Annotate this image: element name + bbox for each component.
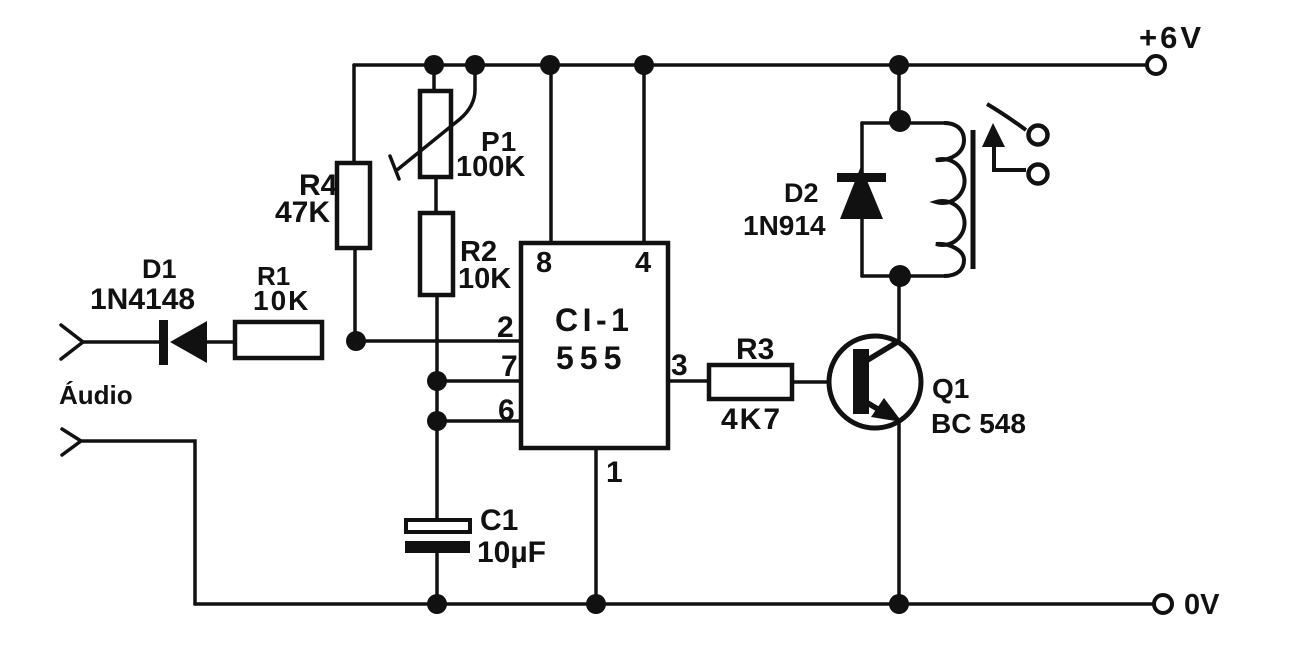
wire pin 3 to R3 — [668, 379, 709, 383]
potentiometer P1 wiper arm — [397, 66, 475, 170]
svg-text:1N4148: 1N4148 — [90, 283, 195, 316]
wire D2 branch lower — [860, 219, 864, 276]
svg-text:3: 3 — [671, 349, 688, 382]
svg-text:Áudio: Áudio — [59, 380, 133, 410]
wire R2 bottom vertical to C1 — [435, 295, 439, 520]
node bottom rail pin1 — [586, 594, 606, 614]
input arrow lower — [62, 429, 81, 455]
relay core bar — [971, 130, 976, 269]
wire Q1 emitter to rail — [897, 421, 901, 604]
wire pin 7 — [437, 379, 521, 383]
resistor R2 — [420, 213, 453, 295]
relay actuation arrow — [982, 123, 1026, 170]
terminal +6V — [1147, 56, 1165, 74]
wire input upper to D1 — [83, 340, 160, 344]
wire top +6V rail — [354, 63, 1146, 67]
wire relay to Q1 collector — [897, 276, 901, 343]
relay switch arm — [987, 104, 1026, 130]
node bottom rail Q1 — [889, 594, 909, 614]
svg-text:+6V: +6V — [1139, 20, 1204, 55]
svg-text:D2: D2 — [784, 178, 819, 208]
wire R4 branch top vertical — [352, 65, 356, 163]
relay contact lower — [1029, 165, 1048, 184]
diode D2 — [837, 166, 886, 219]
svg-text:BC 548: BC 548 — [931, 408, 1026, 439]
node relay top — [889, 110, 911, 132]
wire C1 bottom to rail — [435, 553, 439, 604]
input arrow upper — [61, 325, 83, 359]
IC U1 CI-1 555 box — [521, 243, 668, 448]
wire relay bottom horizontal — [862, 274, 948, 278]
resistor R1 — [235, 322, 322, 358]
svg-text:R3: R3 — [736, 333, 774, 366]
resistor R3 — [709, 365, 792, 399]
svg-text:10K: 10K — [458, 263, 511, 295]
diode D1 — [159, 320, 207, 365]
wire R4 bottom to node — [353, 248, 357, 341]
wire pin 2 node to IC — [356, 339, 521, 343]
svg-text:0V: 0V — [1184, 589, 1220, 621]
node top rail relay — [889, 55, 909, 75]
wire D2 branch upper — [860, 123, 864, 174]
svg-text:4K7: 4K7 — [721, 403, 782, 436]
wire pin 1 — [594, 448, 598, 604]
wire P1 top — [432, 65, 436, 91]
node top rail P1 — [424, 55, 444, 75]
wire pin 6 — [437, 419, 521, 423]
svg-text:D1: D1 — [142, 254, 177, 284]
potentiometer P1 wiper tail tick — [390, 156, 399, 179]
transistor Q1 — [829, 336, 921, 428]
svg-text:1N914: 1N914 — [743, 210, 826, 241]
svg-text:10K: 10K — [253, 285, 310, 316]
wire pin 4 — [642, 65, 646, 243]
node bottom rail C1 — [427, 594, 447, 614]
wire relay top horizontal — [862, 121, 948, 125]
svg-text:555: 555 — [556, 340, 627, 376]
terminal 0V — [1154, 595, 1172, 613]
svg-text:100K: 100K — [456, 151, 525, 183]
node top rail pin8 — [540, 55, 560, 75]
wire bottom 0V rail — [195, 602, 1154, 606]
svg-text:10µF: 10µF — [477, 536, 546, 569]
relay contact upper — [1029, 126, 1048, 145]
svg-text:2: 2 — [497, 311, 514, 344]
relay coil K1 — [936, 123, 965, 276]
node top rail wiper — [465, 55, 485, 75]
capacitor C1 — [405, 520, 470, 553]
svg-text:CI-1: CI-1 — [555, 302, 633, 338]
wire rail to relay top — [897, 65, 901, 121]
svg-text:4: 4 — [635, 247, 651, 279]
wire D1 to R1 — [207, 340, 235, 344]
svg-text:6: 6 — [498, 394, 515, 427]
node R1 R4 pin2 junction — [346, 331, 366, 351]
wire P1 to R2 — [434, 177, 438, 213]
wire R3 to Q1 base — [792, 380, 854, 384]
svg-text:7: 7 — [501, 350, 518, 383]
wire pin 8 — [549, 65, 553, 243]
node top rail pin4 — [634, 55, 654, 75]
svg-text:Q1: Q1 — [932, 373, 969, 404]
svg-text:8: 8 — [536, 247, 552, 279]
svg-text:1: 1 — [606, 456, 623, 489]
node pin7 junction — [427, 371, 447, 391]
svg-text:47K: 47K — [275, 196, 330, 229]
wire input lower — [81, 441, 195, 604]
resistor R4 — [337, 163, 370, 248]
node relay bottom — [889, 265, 911, 287]
svg-text:C1: C1 — [480, 504, 518, 537]
potentiometer P1 — [420, 91, 451, 177]
node pin6 junction — [427, 411, 447, 431]
